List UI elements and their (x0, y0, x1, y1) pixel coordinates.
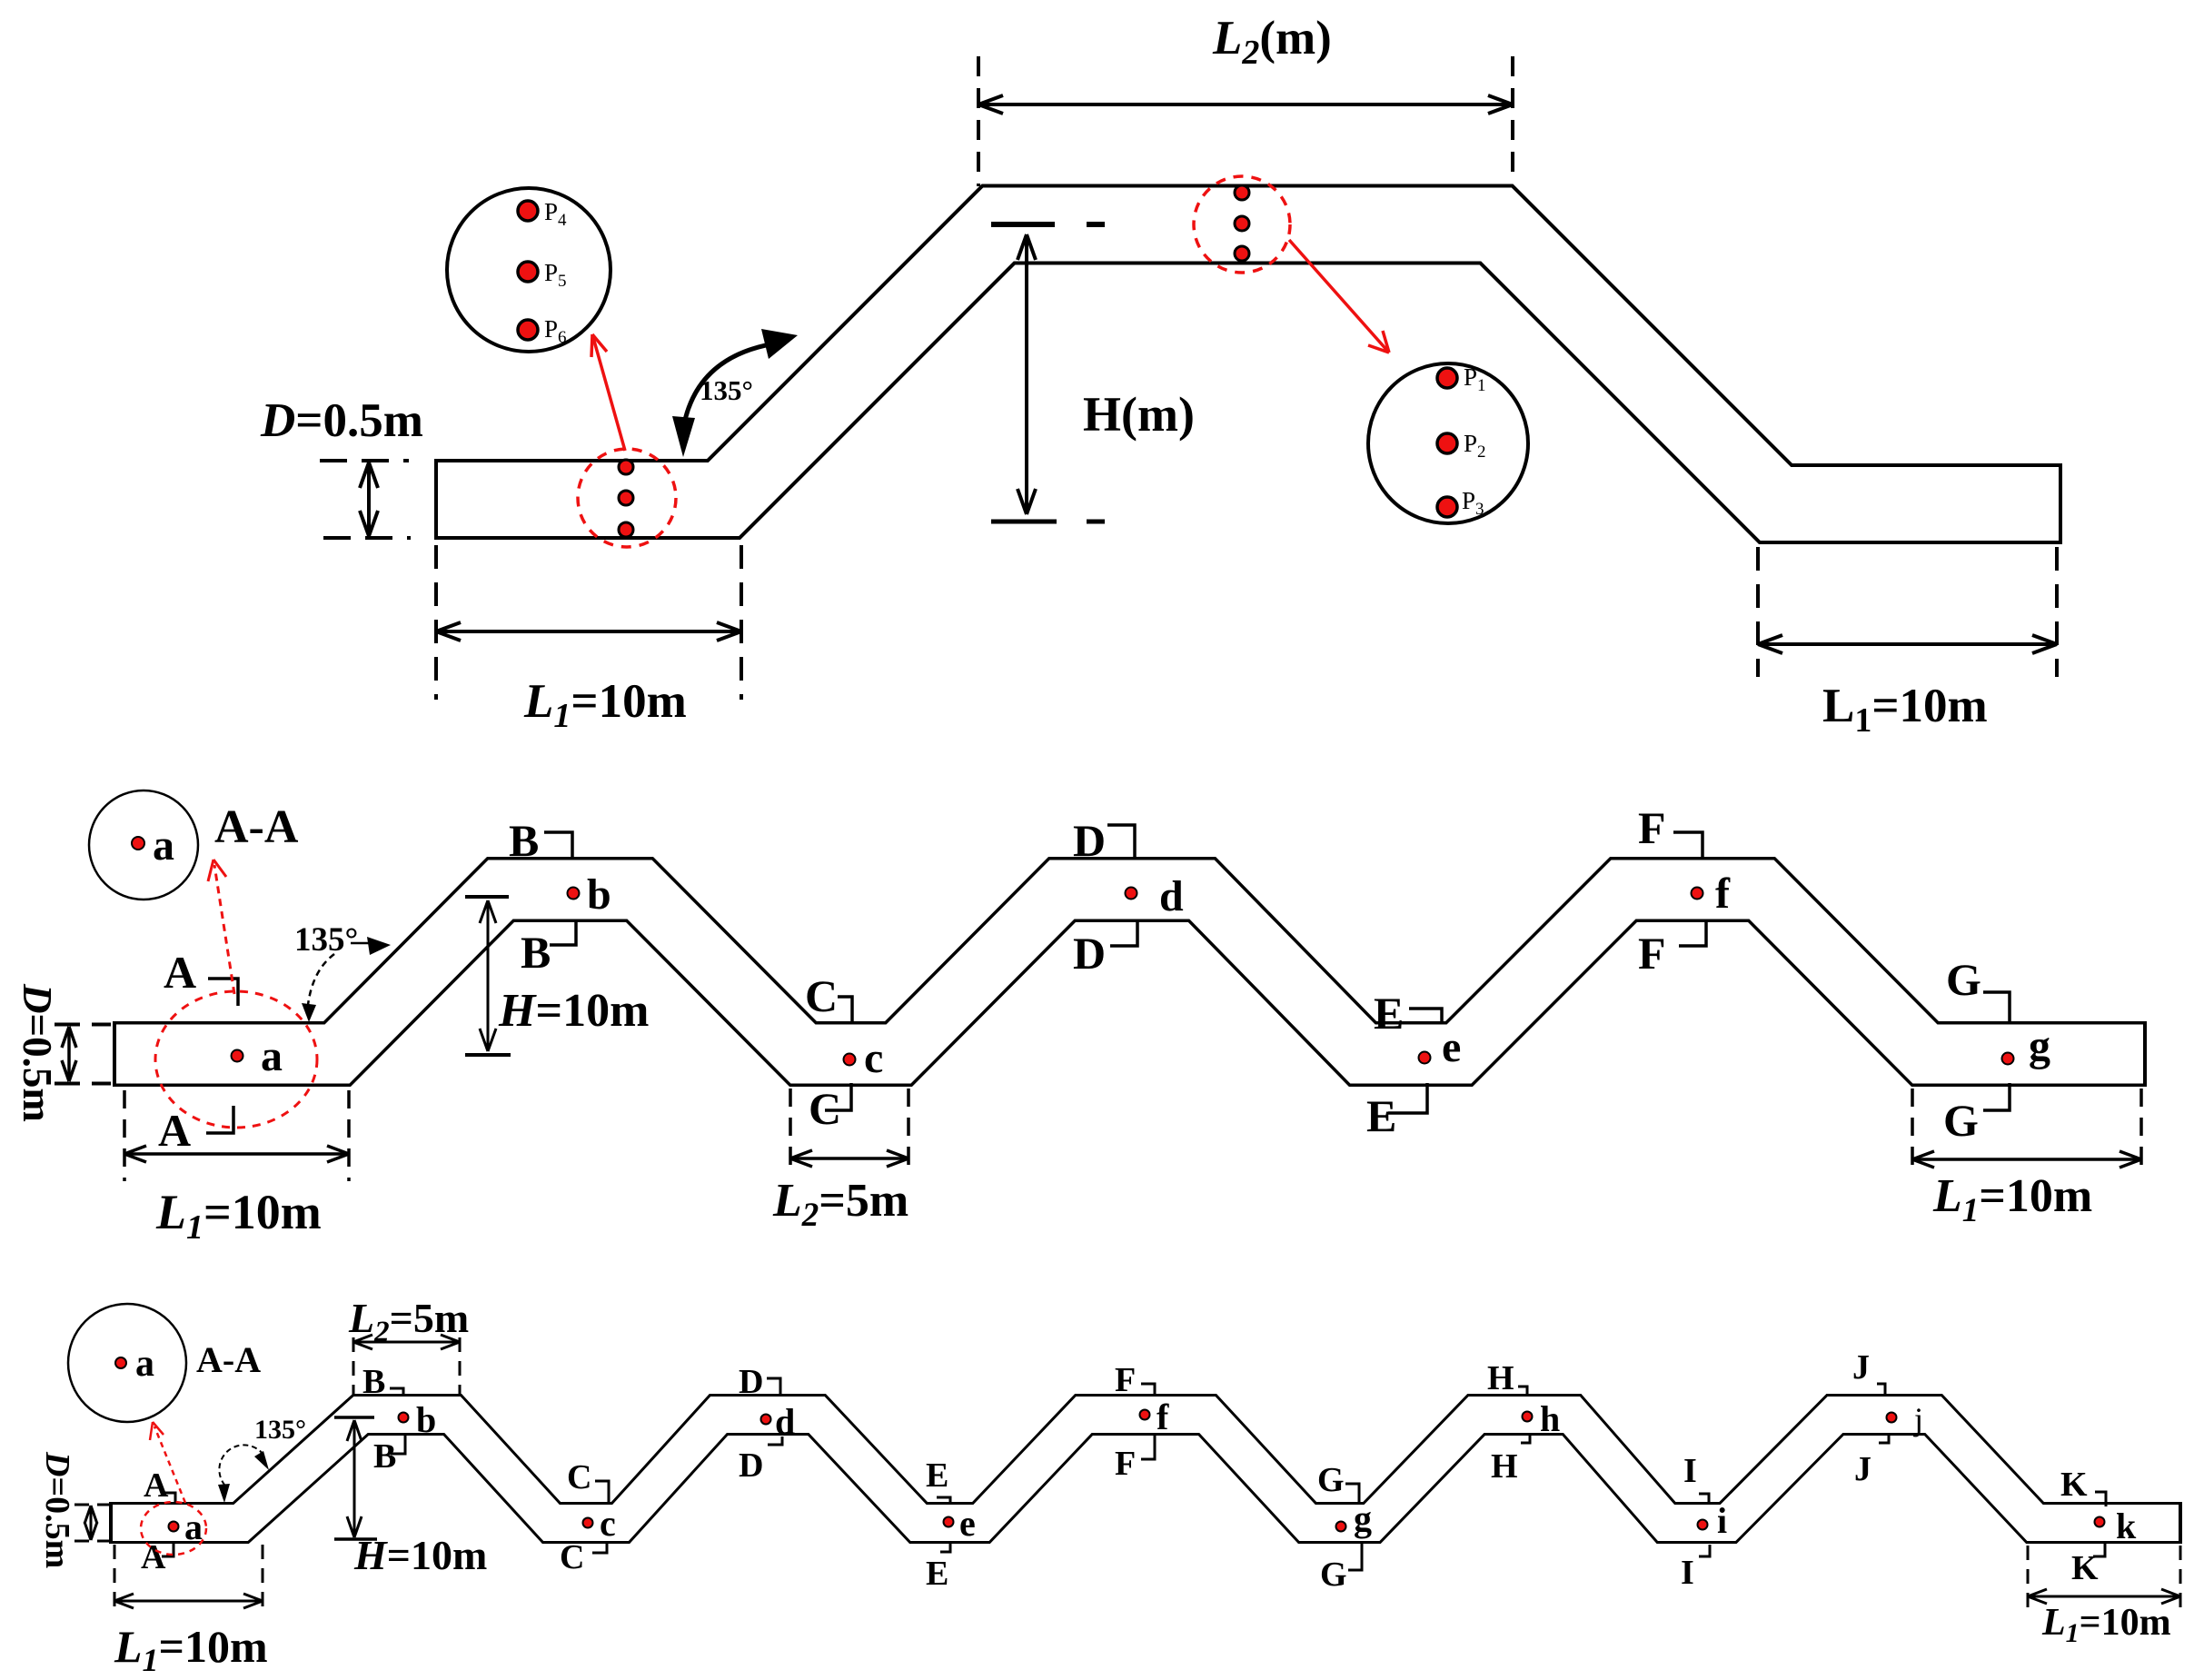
svg-text:L2=5m: L2=5m (348, 1295, 469, 1348)
svg-text:e: e (959, 1503, 976, 1544)
svg-text:C: C (567, 1458, 591, 1496)
svg-text:L1=10m: L1=10m (1932, 1170, 2092, 1229)
svg-text:d: d (775, 1401, 795, 1442)
svg-text:e: e (1442, 1023, 1461, 1071)
svg-text:135°: 135° (294, 921, 358, 959)
svg-text:L1=10m: L1=10m (523, 675, 687, 735)
svg-text:G: G (1943, 1095, 1979, 1146)
svg-text:H(m): H(m) (1083, 387, 1195, 442)
svg-text:C: C (560, 1538, 584, 1576)
svg-text:g: g (1354, 1498, 1372, 1539)
svg-text:L2(m): L2(m) (1212, 12, 1332, 72)
svg-text:E: E (926, 1456, 948, 1495)
svg-text:K: K (2060, 1466, 2088, 1504)
svg-text:a: a (261, 1032, 283, 1080)
svg-text:135°: 135° (254, 1415, 306, 1445)
svg-text:H=10m: H=10m (498, 985, 649, 1037)
svg-text:G: G (1317, 1461, 1345, 1499)
svg-text:D: D (739, 1446, 763, 1485)
svg-text:J: J (1852, 1348, 1870, 1387)
svg-text:c: c (600, 1503, 616, 1544)
svg-text:L1=10m: L1=10m (1822, 680, 1988, 740)
svg-text:j: j (1912, 1401, 1923, 1437)
svg-text:D=0.5m: D=0.5m (15, 983, 60, 1122)
svg-text:G: G (1946, 954, 1981, 1005)
svg-text:K: K (2071, 1549, 2099, 1587)
svg-text:k: k (2116, 1506, 2137, 1546)
svg-text:H: H (1491, 1447, 1518, 1486)
svg-text:h: h (1540, 1398, 1560, 1439)
svg-text:L1=10m: L1=10m (155, 1185, 322, 1247)
svg-text:A-A: A-A (214, 801, 299, 853)
svg-text:g: g (2029, 1022, 2050, 1070)
svg-text:F: F (1115, 1361, 1136, 1399)
svg-text:A: A (144, 1466, 169, 1505)
svg-text:L2=5m: L2=5m (772, 1175, 908, 1234)
svg-text:E: E (926, 1555, 948, 1593)
svg-text:B: B (362, 1363, 385, 1401)
svg-text:A: A (164, 947, 196, 998)
svg-text:L1=10m: L1=10m (2041, 1602, 2171, 1648)
svg-text:L1=10m: L1=10m (114, 1621, 268, 1678)
svg-text:F: F (1115, 1445, 1136, 1483)
svg-text:B: B (521, 927, 551, 978)
svg-text:f: f (1157, 1397, 1169, 1437)
svg-text:a: a (153, 821, 174, 870)
svg-text:I: I (1683, 1452, 1697, 1490)
svg-text:C: C (809, 1083, 841, 1134)
svg-text:D: D (739, 1363, 763, 1401)
svg-text:b: b (587, 870, 611, 919)
svg-text:J: J (1854, 1450, 1871, 1488)
svg-text:D: D (1073, 815, 1106, 866)
svg-text:E: E (1366, 1090, 1396, 1141)
svg-text:H=10m: H=10m (353, 1532, 487, 1578)
svg-text:E: E (1374, 988, 1404, 1039)
svg-text:c: c (864, 1034, 883, 1082)
svg-text:D: D (1073, 928, 1106, 979)
svg-text:B: B (373, 1437, 396, 1476)
svg-text:A-A: A-A (196, 1339, 261, 1380)
svg-text:B: B (509, 815, 539, 866)
svg-text:a: a (135, 1343, 154, 1385)
svg-text:F: F (1638, 802, 1666, 853)
svg-text:H: H (1487, 1359, 1514, 1397)
svg-text:d: d (1159, 872, 1184, 920)
svg-text:D=0.5m: D=0.5m (38, 1451, 76, 1568)
svg-text:I: I (1681, 1554, 1694, 1592)
svg-text:F: F (1638, 928, 1666, 979)
svg-text:D=0.5m: D=0.5m (260, 394, 423, 447)
svg-text:b: b (416, 1399, 436, 1440)
svg-text:G: G (1320, 1556, 1347, 1594)
svg-text:i: i (1717, 1500, 1727, 1541)
svg-text:f: f (1715, 870, 1731, 918)
svg-text:C: C (805, 970, 838, 1021)
